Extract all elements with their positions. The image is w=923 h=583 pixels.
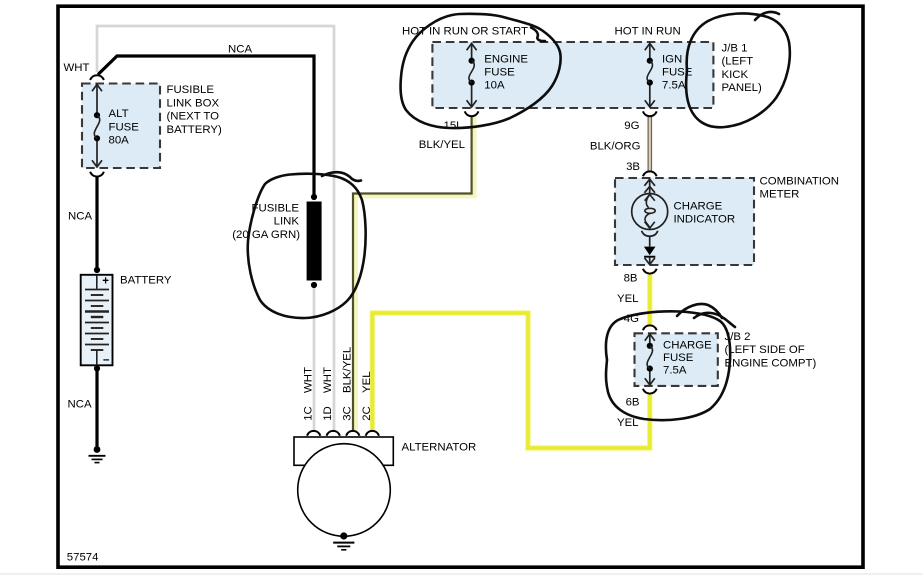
svg-text:(LEFT: (LEFT [722, 56, 754, 68]
charge fuse symbol [645, 334, 655, 385]
svg-text:1D: 1D [322, 406, 334, 421]
charge indicator lamp U1 [632, 179, 668, 265]
wire BLK/YEL tracer (pale yellow stripe) [356, 116, 475, 431]
connector 4G at charge fuse top [643, 325, 657, 330]
svg-text:INDICATOR: INDICATOR [674, 214, 736, 226]
svg-text:1C: 1C [302, 406, 314, 421]
svg-text:3C: 3C [342, 406, 354, 421]
svg-text:BATTERY): BATTERY) [167, 124, 222, 136]
svg-text:J/B 1: J/B 1 [722, 43, 748, 55]
combination meter dashed box [615, 178, 754, 265]
svg-text:ENGINE: ENGINE [484, 54, 528, 66]
svg-text:15L: 15L [443, 120, 462, 132]
svg-text:9G: 9G [624, 120, 639, 132]
ground under alternator [333, 532, 354, 549]
svg-text:7.5A: 7.5A [662, 80, 686, 92]
svg-text:WHT: WHT [322, 367, 334, 393]
wire YEL: charge fuse 6B to alternator 2C [372, 313, 650, 448]
connector pin 2C [366, 431, 379, 436]
svg-text:YEL: YEL [617, 293, 639, 305]
svg-text:YEL: YEL [361, 371, 373, 393]
engine fuse symbol [467, 43, 477, 107]
svg-text:FUSIBLE: FUSIBLE [167, 84, 215, 96]
svg-text:10A: 10A [484, 80, 505, 92]
svg-text:BLK/ORG: BLK/ORG [590, 141, 641, 153]
svg-text:YEL: YEL [617, 417, 639, 429]
svg-text:NCA: NCA [68, 399, 92, 411]
connector at engine fuse 15L [465, 111, 479, 116]
svg-text:IGN: IGN [662, 54, 682, 66]
svg-text:CHARGE: CHARGE [663, 340, 712, 352]
svg-text:6B: 6B [626, 397, 640, 409]
wire YEL: combination meter 8B to charge fuse 4G [647, 274, 652, 326]
connector pin 1D [327, 431, 340, 436]
svg-text:HOT IN RUN: HOT IN RUN [615, 26, 681, 38]
svg-text:BATTERY: BATTERY [120, 274, 172, 286]
J/B 1 dashed box [432, 42, 713, 108]
ground under battery [89, 446, 106, 463]
battery B1 [81, 267, 113, 372]
svg-text:ALTERNATOR: ALTERNATOR [402, 442, 477, 454]
wire NCA black: ALT fuse bottom to battery [95, 177, 98, 269]
bottom edge hairline [0, 573, 923, 575]
svg-text:CHARGE: CHARGE [674, 201, 723, 213]
svg-text:(LEFT SIDE OF: (LEFT SIDE OF [725, 344, 805, 356]
svg-text:FUSIBLE: FUSIBLE [252, 203, 300, 215]
svg-text:COMBINATION: COMBINATION [760, 176, 840, 188]
connector pin 1C [307, 431, 320, 436]
svg-text:–: – [103, 354, 110, 366]
svg-text:80A: 80A [109, 135, 130, 147]
connector at ign fuse 9G [643, 111, 657, 116]
wire NCA black: battery to ground [95, 370, 98, 447]
wire BLK/YEL dark line: engine fuse 15L to alternator 3C [353, 116, 472, 431]
ALT fuse symbol [92, 84, 102, 167]
svg-text:3B: 3B [626, 161, 640, 173]
svg-text:LINK BOX: LINK BOX [167, 97, 220, 109]
fusible link thick bar [307, 194, 322, 288]
svg-text:METER: METER [760, 189, 800, 201]
svg-text:WHT: WHT [302, 367, 314, 393]
svg-text:NCA: NCA [228, 44, 252, 56]
svg-text:FUSE: FUSE [109, 121, 140, 133]
svg-text:BLK/YEL: BLK/YEL [419, 139, 465, 151]
svg-text:ALT: ALT [109, 108, 129, 120]
connector at ALT fuse top [90, 75, 104, 80]
J/B 2 charge fuse dashed box [635, 333, 718, 386]
hand-drawn circle around charge fuse [606, 304, 735, 420]
hand-drawn circle around fusible link [248, 172, 366, 318]
svg-text:57574: 57574 [67, 552, 99, 564]
connector at ALT fuse bottom [90, 172, 104, 177]
svg-text:WHT: WHT [64, 62, 90, 74]
hand-drawn circle around J/B 1 [686, 12, 790, 127]
svg-text:FUSE: FUSE [484, 67, 515, 79]
svg-text:ENGINE COMPT): ENGINE COMPT) [725, 357, 817, 369]
hand-drawn circle around engine fuse [401, 14, 561, 128]
svg-text:(NEXT TO: (NEXT TO [167, 111, 220, 123]
wire WHT gray: fusible link bottom to alternator 1C [313, 288, 316, 431]
alternator G1 [294, 437, 393, 536]
svg-text:LINK: LINK [274, 216, 300, 228]
connector 8B at combination meter bottom [643, 269, 657, 274]
svg-text:8B: 8B [624, 273, 638, 285]
svg-text:+: + [102, 276, 109, 288]
svg-text:PANEL): PANEL) [722, 82, 763, 94]
svg-text:NCA: NCA [68, 211, 92, 223]
fusible link box (ALT FUSE) dashed box [82, 84, 160, 169]
connector 3B at combination meter top [643, 171, 657, 176]
svg-text:(20 GA GRN): (20 GA GRN) [232, 229, 300, 241]
svg-text:KICK: KICK [722, 69, 749, 81]
wire WHT gray: alternator 1D to top frame to ALT fuse box [97, 26, 334, 431]
svg-text:7.5A: 7.5A [663, 365, 687, 377]
ign fuse symbol [645, 43, 655, 107]
svg-text:2C: 2C [361, 406, 373, 421]
wire NCA black: ALT fuse top to fusible link top [98, 56, 314, 196]
connector 6B at charge fuse bottom [643, 389, 657, 394]
connector pin 3C [346, 431, 359, 436]
svg-text:FUSE: FUSE [663, 352, 694, 364]
svg-text:BLK/YEL: BLK/YEL [342, 347, 354, 393]
wire BLK/ORG: IGN fuse 9G to combination meter 3B [647, 117, 652, 172]
